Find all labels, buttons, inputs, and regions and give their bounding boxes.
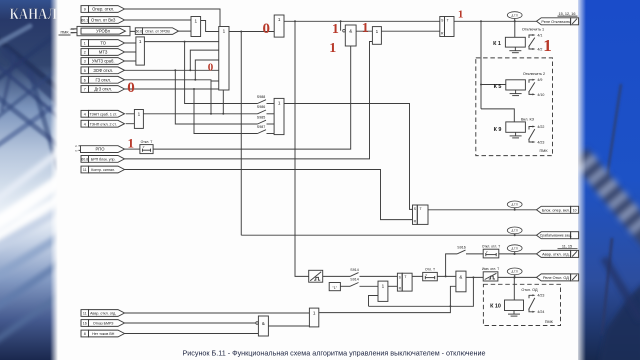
svg-text:ТЗНП откл. 2 ст.: ТЗНП откл. 2 ст. xyxy=(90,122,117,126)
svg-text:T: T xyxy=(404,275,406,279)
wire to K10 coil xyxy=(513,277,515,300)
wire edge detector to S914 switch to T3 S input xyxy=(323,275,350,277)
switch S914 (upper) xyxy=(350,268,359,277)
wire to K1 coil xyxy=(514,21,516,37)
svg-text:60.8: 60.8 xyxy=(81,158,88,162)
pulse former 'Имп. отл. Т' xyxy=(482,267,499,281)
UROVp block (with input pins 3C01/3C18) xyxy=(70,26,130,35)
relay K1 contact 4/1 4/2 xyxy=(529,33,543,51)
input flag 16 'Отказ БМРЗ' xyxy=(81,320,125,327)
wire Откл.отл.Т delay to Авар. откл. отд. flag xyxy=(499,253,537,255)
svg-text:0: 0 xyxy=(208,62,214,74)
svg-text:S985: S985 xyxy=(257,115,265,119)
OR gate F (top middle) xyxy=(274,15,284,37)
wire Отказ БМРЗ to AND N inverted input xyxy=(125,322,256,324)
wire gate F output to trigger T1 S input xyxy=(284,20,440,22)
svg-text:ПМК: ПМК xyxy=(539,149,548,153)
wire gate B output to gate F xyxy=(229,31,274,33)
OR gate C (ТО/МТЗ/УМТЗ) xyxy=(136,37,145,65)
right photo band xyxy=(571,0,640,360)
svg-text:У: У xyxy=(425,273,427,277)
svg-text:4/24: 4/24 xyxy=(537,310,544,314)
input flag 9 'Опер. откл.' xyxy=(81,6,125,13)
DTP oval 1 (Реле Отключить) xyxy=(507,12,522,23)
svg-text:S916: S916 xyxy=(457,245,465,249)
svg-text:15, 12, 16: 15, 12, 16 xyxy=(559,12,576,16)
input flag 1 'ТО' xyxy=(81,40,125,47)
wire branch into AND G inverted input xyxy=(340,21,342,30)
svg-text:ТЗНП сраб. 1 ст.: ТЗНП сраб. 1 ст. xyxy=(89,112,116,116)
svg-text:S987: S987 xyxy=(257,125,265,129)
svg-text:6: 6 xyxy=(84,78,86,82)
svg-text:Контр. сигнал.: Контр. сигнал. xyxy=(91,168,115,172)
wire branch up to S916 switch and Откл.отл.Т delay xyxy=(446,254,457,277)
delay 'Отл. Т' (T3 output) xyxy=(423,268,438,281)
RS trigger T1 (Реле Отключить) xyxy=(440,17,454,37)
svg-text:Реле Откл. ОД: Реле Откл. ОД xyxy=(543,276,569,280)
dashed box ПМК (K10) xyxy=(483,284,560,325)
relay K9 coil xyxy=(494,122,526,138)
svg-text:S988: S988 xyxy=(257,95,265,99)
svg-text:Откл. от УРОВ: Откл. от УРОВ xyxy=(145,30,170,34)
svg-text:1: 1 xyxy=(332,22,339,37)
wire branch up from ГЗ to gate B input 3 xyxy=(195,60,218,80)
wire branch S985 vertical xyxy=(175,70,257,124)
svg-text:1: 1 xyxy=(313,310,316,315)
wire branch down from ГЗ to S986 row xyxy=(210,81,212,114)
svg-text:УМТЗ сраб.: УМТЗ сраб. xyxy=(92,59,115,64)
svg-text:Опер. откл.: Опер. откл. xyxy=(92,7,114,12)
switch S914 (lower) xyxy=(350,278,359,287)
svg-text:2: 2 xyxy=(84,51,86,55)
wire OR J output to T3 R input xyxy=(388,285,398,287)
wire gate E output to trigger T2 S input xyxy=(284,104,413,210)
delay 'Откл. отл. Т' (Авар. откл. отд.) xyxy=(482,244,500,258)
switch S986 xyxy=(257,105,266,114)
svg-text:4: 4 xyxy=(84,122,86,126)
output flag 'Реле Отключить' xyxy=(537,12,579,25)
svg-text:1: 1 xyxy=(223,29,226,34)
svg-text:"1": "1" xyxy=(333,286,338,290)
svg-text:Вкл. КЗ: Вкл. КЗ xyxy=(521,117,535,121)
output flag 'Блок. опер. вкл.' xyxy=(537,206,579,213)
svg-text:МТЗ: МТЗ xyxy=(99,50,108,55)
input flag 8 'Нет токов ВН' xyxy=(81,330,125,337)
svg-text:ТО: ТО xyxy=(100,41,106,46)
switch S987 xyxy=(257,125,266,134)
OR gate E (S988/S986/S985/S987) xyxy=(274,98,284,134)
wire branch S988 vertical xyxy=(185,42,258,104)
switch S916 xyxy=(457,245,466,254)
svg-text:К 9: К 9 xyxy=(494,127,502,133)
svg-text:9: 9 xyxy=(84,8,86,12)
AND gate G with inverted input xyxy=(343,25,356,46)
wire AND G output to OR H xyxy=(356,30,372,32)
svg-text:Откл. отл. Т: Откл. отл. Т xyxy=(482,244,500,248)
svg-text:Реле Отключить: Реле Отключить xyxy=(541,20,570,24)
AND gate N (bottom left) with inverted input xyxy=(256,316,269,336)
OR gate K (bottom, Авар. откл. отд.) xyxy=(309,308,318,327)
svg-text:4/1: 4/1 xyxy=(537,33,542,37)
input flag 5 'ЗОФ откл.' xyxy=(81,67,125,74)
wire ТЗНП flags into gate D xyxy=(126,114,135,124)
svg-text:60.6: 60.6 xyxy=(136,30,142,34)
wire long vertical to edge detector xyxy=(295,21,309,276)
wire gate D output to S986 switch and up to gate B bottom xyxy=(143,113,257,115)
wire ТО/МТЗ/УМТЗ into gate C xyxy=(125,43,136,61)
svg-text:4/9: 4/9 xyxy=(537,78,542,82)
svg-text:Д.Т.П: Д.Т.П xyxy=(512,13,518,17)
svg-text:ПМК: ПМК xyxy=(545,320,554,324)
svg-text:У: У xyxy=(143,145,145,149)
svg-text:УРОВп: УРОВп xyxy=(96,29,110,34)
svg-text:S914: S914 xyxy=(350,278,358,282)
OR gate J (middle lower, S914 path) xyxy=(378,281,388,301)
svg-text:4/23: 4/23 xyxy=(537,140,544,144)
svg-text:11, 15: 11, 15 xyxy=(562,245,572,249)
input flag 3 'УМТЗ сраб.' xyxy=(81,58,125,65)
svg-text:1: 1 xyxy=(278,101,281,106)
wire row1 Опер. откл. to gate B top xyxy=(125,9,221,27)
wire AND N output to OR K xyxy=(268,325,309,327)
svg-text:К 10: К 10 xyxy=(490,304,501,310)
svg-text:Откл. Т: Откл. Т xyxy=(141,140,153,144)
wire AND M output to Имп.отл.Т and Реле Откл. ОД flag xyxy=(466,276,537,278)
svg-text:7: 7 xyxy=(84,88,86,92)
DTP oval 4 (Авар. откл. отд.) xyxy=(507,245,522,255)
switch S988 xyxy=(257,95,266,104)
svg-text:4/22: 4/22 xyxy=(537,125,544,129)
edge detector (middle) xyxy=(309,270,323,282)
output flag 'Срабатывание защ.' xyxy=(537,232,579,239)
RS trigger T3 (ОД path) xyxy=(397,273,412,291)
svg-text:&: & xyxy=(459,275,462,280)
wire long vertical from B output to Срабатывание bus xyxy=(240,32,242,236)
wire УРОВ block to 60.6 flag and gate A xyxy=(130,30,191,32)
wire OR K output to AND M lower input xyxy=(319,286,456,312)
svg-text:1: 1 xyxy=(139,39,142,44)
input flag 6 'ГЗ откл.' xyxy=(81,76,125,83)
svg-text:1: 1 xyxy=(84,42,86,46)
PMK label xyxy=(59,31,71,36)
svg-text:Отказ БМРЗ: Отказ БМРЗ xyxy=(93,322,114,326)
wire vertical into relay box to K5 and K9 xyxy=(480,21,482,109)
svg-text:1: 1 xyxy=(376,29,379,34)
OR gate B (main trip OR, tall) xyxy=(219,27,229,91)
relay K9 contact 4/22 4/23 xyxy=(529,125,545,144)
svg-text:Откл. от ВкЗ: Откл. от ВкЗ xyxy=(91,18,116,23)
svg-text:БРП блок. упр.: БРП блок. упр. xyxy=(91,158,116,162)
input flag 2 'МТЗ' xyxy=(81,49,125,56)
svg-text:Отключить 2: Отключить 2 xyxy=(523,72,545,76)
DTP oval 3 (Срабатывание защ.) xyxy=(507,227,522,236)
wire trigger T1 output bus to Реле Отключить flag xyxy=(454,20,537,22)
OR gate A (Откл. от ВкЗ / Откл. от УРОВ) xyxy=(191,17,201,37)
relay K10 contact 4/23 4/24 xyxy=(529,294,545,315)
svg-text:Отл. Т: Отл. Т xyxy=(425,268,435,272)
svg-text:S986: S986 xyxy=(257,105,265,109)
svg-text:Д.Т.П: Д.Т.П xyxy=(512,229,518,233)
svg-text:ГЗ откл.: ГЗ откл. xyxy=(95,77,111,82)
svg-text:1: 1 xyxy=(278,17,281,22)
wire ДгЗ row to gate B xyxy=(125,88,219,90)
wire gate C output to gate B xyxy=(144,41,218,43)
AND gate M (right lower) xyxy=(456,271,466,292)
svg-text:Имп. отл. Т: Имп. отл. Т xyxy=(482,267,499,271)
svg-text:У: У xyxy=(486,250,488,254)
svg-text:1: 1 xyxy=(382,283,385,288)
svg-text:1: 1 xyxy=(458,9,464,21)
svg-text:0: 0 xyxy=(127,80,135,96)
wire БРП блок. упр. up to OR H lower input xyxy=(125,42,373,159)
wire delay output up to AND G lower input xyxy=(153,46,351,149)
svg-text:4/23: 4/23 xyxy=(537,294,544,298)
DTP oval 2 (Блок. опер. вкл.) xyxy=(507,201,522,211)
dashed box ПМК (K5, K9) xyxy=(476,58,553,156)
svg-text:Срабатывание защ.: Срабатывание защ. xyxy=(540,234,572,238)
svg-text:1: 1 xyxy=(329,41,336,56)
output flag 'Реле Откл. ОД' xyxy=(537,274,579,281)
svg-text:&: & xyxy=(262,321,265,326)
svg-text:S914: S914 xyxy=(350,268,358,272)
OR gate D (ТЗНП) xyxy=(134,110,143,129)
flag 60.6 'Откл. от УРОВ' xyxy=(135,28,178,35)
svg-text:К 5: К 5 xyxy=(494,84,502,90)
input flag 60.1 'Откл. от ВкЗ' xyxy=(81,17,125,24)
svg-text:11: 11 xyxy=(83,312,87,316)
svg-text:10: 10 xyxy=(573,208,577,212)
svg-text:4/2: 4/2 xyxy=(537,47,542,51)
svg-text:16: 16 xyxy=(83,322,87,326)
wire РПО flag to delay xyxy=(125,148,140,150)
svg-text:Отключить 1: Отключить 1 xyxy=(522,27,544,31)
wire const 1 to S914 lower switch to OR J xyxy=(340,285,350,287)
OR gate H (top right) xyxy=(372,27,381,45)
svg-text:Откл. ОД: Откл. ОД xyxy=(521,288,538,292)
svg-text:11: 11 xyxy=(83,168,87,172)
input flag РПО with pins У1/У2 xyxy=(75,146,125,153)
wire branch S987 vertical xyxy=(194,89,258,134)
svg-text:T: T xyxy=(447,19,449,23)
output flag 'Авар. откл. отд.' xyxy=(537,245,579,258)
wire ГЗ row jog to gate B xyxy=(125,80,219,81)
svg-text:Блок. опер. вкл.: Блок. опер. вкл. xyxy=(542,208,570,212)
svg-text:Авар. откл. отд.: Авар. откл. отд. xyxy=(90,312,116,316)
svg-text:ДгЗ откл.: ДгЗ откл. xyxy=(94,87,112,92)
svg-text:Д.Т.П: Д.Т.П xyxy=(512,270,518,274)
svg-text:Авар. откл. отд.: Авар. откл. отд. xyxy=(542,252,570,256)
input flag 4 'ТЗНП откл. 2 ст.' xyxy=(81,120,125,127)
svg-text:4: 4 xyxy=(84,112,86,116)
svg-text:&: & xyxy=(349,29,352,34)
svg-text:ЗОФ откл.: ЗОФ откл. xyxy=(93,68,113,73)
svg-text:К 1: К 1 xyxy=(493,41,501,47)
svg-text:Рисунок Б.11 - Функциональная: Рисунок Б.11 - Функциональная схема алго… xyxy=(182,349,485,358)
svg-text:1: 1 xyxy=(138,112,141,117)
wire ЗОФ row to gate B xyxy=(125,69,219,71)
relay K5 contact 4/9 4/10 xyxy=(529,78,545,97)
svg-text:1: 1 xyxy=(127,136,134,151)
wire trigger T2 output to Блок. опер. вкл. flag xyxy=(428,209,537,211)
wire Контр. сигнал. to trigger T2 R input xyxy=(125,170,413,220)
input flag 4 'ТЗНП сраб. 1 ст.' xyxy=(81,110,125,117)
relay K5 coil xyxy=(494,80,526,96)
svg-text:3: 3 xyxy=(84,60,86,64)
svg-text:4/10: 4/10 xyxy=(537,93,544,97)
svg-text:ПМК: ПМК xyxy=(60,31,69,35)
delay 'Откл. Т' (РПО path) xyxy=(140,140,153,154)
svg-text:Д.Т.П: Д.Т.П xyxy=(512,247,518,251)
RS trigger T2 (Блок. опер. вкл.) xyxy=(413,205,429,224)
input flag 60.8 'БРП блок. упр.' xyxy=(81,156,125,163)
relay K1 coil xyxy=(493,37,525,52)
svg-text:T: T xyxy=(419,207,421,211)
svg-text:0: 0 xyxy=(263,21,271,37)
svg-text:5: 5 xyxy=(84,69,86,73)
switch S985 xyxy=(257,115,266,124)
wire row2 to gate A xyxy=(125,19,192,21)
wire Срабатывание bus xyxy=(241,234,536,236)
svg-text:8: 8 xyxy=(84,332,86,336)
input flag 11 'Авар. откл. отд.' xyxy=(81,310,125,317)
svg-text:60.1: 60.1 xyxy=(81,19,88,23)
input flag 7 'ДгЗ откл.' xyxy=(81,86,125,93)
wire branch down from AND M output to lower bus xyxy=(369,277,474,306)
input flag 11 'Контр. сигнал.' xyxy=(81,166,125,173)
left photo band xyxy=(0,0,64,360)
svg-text:РПО: РПО xyxy=(95,147,105,152)
svg-text:Нет токов ВН: Нет токов ВН xyxy=(92,332,115,336)
wire OR J feedback lower input xyxy=(369,296,379,307)
relay K10 coil xyxy=(490,300,523,316)
svg-text:1: 1 xyxy=(543,36,552,55)
wire OR H output to trigger T1 R input xyxy=(381,30,439,32)
wire T3 output to delay Отл.Т to AND M xyxy=(412,275,456,277)
wire gate A output jog to gate B xyxy=(201,21,219,32)
constant '1' box xyxy=(329,283,340,291)
svg-text:Д.Т.П: Д.Т.П xyxy=(512,203,518,207)
svg-text:1: 1 xyxy=(195,19,198,24)
wire Авар. откл. отд. input flag to OR K xyxy=(125,312,310,314)
wire Нет токов ВН to AND N xyxy=(125,333,259,335)
wire branch up to gate B input 2 xyxy=(190,50,218,70)
DTP oval 5 (Реле Откл. ОД) xyxy=(507,268,522,278)
svg-text:1: 1 xyxy=(362,21,369,36)
